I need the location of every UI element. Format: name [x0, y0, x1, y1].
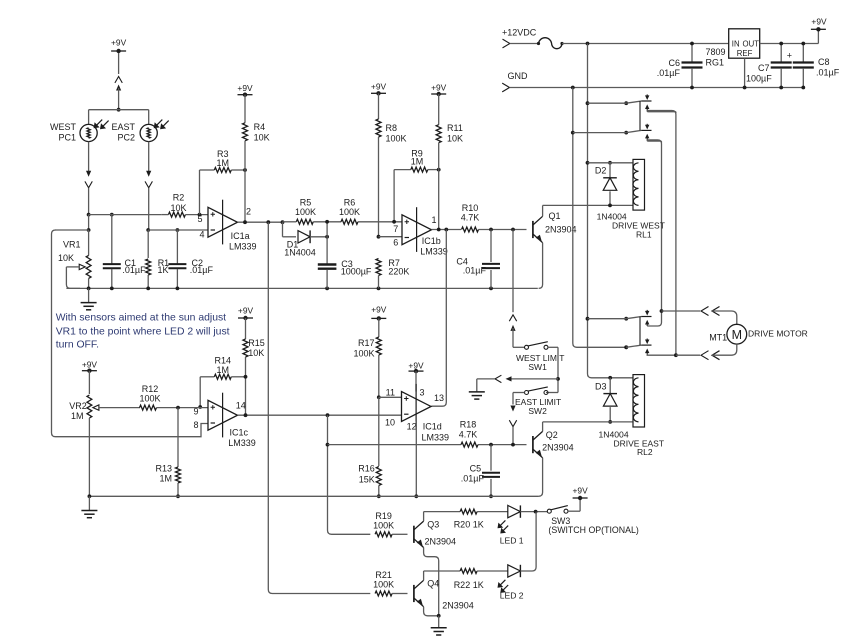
resistor R17 — [371, 305, 387, 398]
svg-text:100K: 100K — [373, 521, 394, 531]
svg-text:6: 6 — [393, 237, 398, 247]
wire (gnd vertical) — [573, 88, 626, 348]
label DRIVE EAST RL2 — [614, 438, 665, 457]
svg-text:R22 1K: R22 1K — [454, 580, 484, 590]
resistor R2 — [161, 212, 208, 217]
svg-text:8: 8 — [193, 420, 198, 430]
resistor R13 — [176, 408, 181, 499]
connector J1 (9V feed) — [115, 77, 122, 110]
svg-text:With sensors aimed at the sun: With sensors aimed at the sun adjust — [56, 313, 226, 324]
svg-text:100K: 100K — [139, 394, 160, 404]
node gnd bus — [571, 86, 575, 90]
svg-text:1M: 1M — [71, 411, 84, 421]
svg-text:R19: R19 — [375, 511, 392, 521]
node C (PC2/R1/C2/pin4) — [146, 228, 208, 232]
resistor R11 — [431, 82, 447, 169]
label R11 10K — [447, 123, 463, 144]
connector (to SW1) — [509, 315, 524, 348]
label pin 14 — [236, 401, 246, 411]
svg-text:D3: D3 — [595, 381, 607, 391]
op-amp IC1d — [402, 384, 432, 429]
label R4 10K — [254, 122, 270, 143]
resistor R9 — [392, 167, 440, 224]
svg-text:R16: R16 — [358, 464, 375, 474]
svg-text:VR1: VR1 — [63, 240, 81, 250]
label pin 5 — [197, 214, 202, 224]
ground (VR1) — [81, 288, 97, 309]
label 1N4004 (D3) — [599, 430, 629, 440]
wire (Q1 collector) — [543, 205, 633, 216]
svg-text:IC1a: IC1a — [231, 231, 250, 241]
svg-text:4: 4 — [199, 230, 204, 240]
svg-text:.01µF: .01µF — [461, 473, 485, 483]
label IC1d LM339 — [422, 422, 450, 443]
label pin 13 — [434, 393, 444, 403]
label Q3 — [427, 520, 439, 530]
wire (Q4 emitter) — [424, 607, 439, 616]
label pin 8 — [193, 420, 198, 430]
svg-text:R18: R18 — [460, 420, 477, 430]
svg-text:.01µF: .01µF — [190, 265, 214, 275]
label D2 — [595, 166, 607, 176]
svg-text:4.7K: 4.7K — [461, 213, 480, 223]
svg-text:VR1 to the point where LED 2 w: VR1 to the point where LED 2 will just — [56, 327, 230, 338]
wire (REF to gnd) — [743, 58, 747, 89]
svg-text:turn OFF.: turn OFF. — [56, 340, 99, 351]
svg-text:C6: C6 — [668, 58, 680, 68]
wire (IC1c out branch) — [326, 415, 371, 534]
svg-text:PC1: PC1 — [58, 133, 76, 143]
capacitor C2 — [168, 230, 186, 288]
label Q4 — [427, 579, 439, 589]
wire — [88, 142, 90, 171]
label R19 100K — [373, 511, 394, 531]
svg-text:R6: R6 — [344, 198, 356, 208]
svg-text:15K: 15K — [359, 474, 375, 484]
svg-text:11: 11 — [386, 387, 395, 397]
svg-text:+9V: +9V — [111, 38, 127, 48]
node motor top — [660, 309, 700, 313]
connector (to Q2 base) — [509, 406, 516, 445]
+9V VR2 — [82, 360, 98, 395]
svg-text:LED 1: LED 1 — [500, 536, 524, 546]
svg-text:1M: 1M — [411, 157, 424, 167]
svg-text:Q1: Q1 — [549, 211, 561, 221]
resistor R12 — [140, 405, 209, 410]
label R2 10K — [170, 193, 186, 213]
label VR2 1M — [69, 401, 87, 421]
trimpot VR2 — [87, 395, 140, 496]
label VR1 10K — [58, 240, 81, 263]
node C4 top — [489, 228, 515, 232]
photocell PC2 — [140, 120, 169, 142]
svg-text:M: M — [732, 328, 742, 342]
capacitor C3 — [318, 220, 337, 288]
svg-text:+9V: +9V — [431, 82, 447, 92]
note text — [56, 313, 230, 351]
svg-text:PC2: PC2 — [117, 133, 135, 143]
svg-text:C7: C7 — [758, 63, 770, 73]
svg-text:GND: GND — [508, 71, 529, 81]
wire (LED2 to LED1 node) — [520, 512, 536, 571]
svg-text:10K: 10K — [248, 348, 264, 358]
svg-text:.01µF: .01µF — [816, 68, 840, 78]
capacitor C1 — [103, 215, 121, 289]
node IC1c out — [238, 413, 402, 417]
svg-text:(SWITCH OP(TIONAL): (SWITCH OP(TIONAL) — [548, 525, 638, 535]
label pin 6 — [393, 237, 398, 247]
wire — [438, 170, 440, 230]
resistor R10 — [462, 227, 527, 232]
relay coil RL1 — [586, 159, 645, 210]
relay RL2 contact b (gnd) — [624, 339, 676, 356]
svg-text:RG1: RG1 — [705, 57, 724, 67]
wire (IC1a out bus) — [268, 222, 370, 593]
svg-text:10K: 10K — [58, 253, 74, 263]
resistor R22 — [460, 569, 508, 574]
node +12/relays — [586, 42, 590, 46]
transistor Q2 2N3904 — [533, 431, 543, 457]
resistor R1 — [146, 230, 151, 288]
resistor R20 — [460, 509, 508, 514]
svg-text:1M: 1M — [159, 474, 172, 484]
svg-text:RL1: RL1 — [636, 230, 652, 240]
svg-text:220K: 220K — [388, 267, 409, 277]
label 2N3904 (Q2) — [542, 442, 574, 452]
label 7809 RG1 — [705, 47, 725, 67]
svg-text:R4: R4 — [254, 122, 266, 132]
regulator RG1 7809 — [729, 29, 760, 58]
transistor Q3 2N3904 — [414, 521, 424, 547]
capacitor C4 — [482, 230, 500, 289]
relay RL2 contact a (+12) — [586, 310, 662, 326]
svg-text:9: 9 — [193, 407, 198, 417]
ground rail (upper) — [66, 287, 537, 291]
resistor R21 — [375, 591, 407, 596]
svg-text:+9V: +9V — [811, 17, 827, 27]
svg-text:LM339: LM339 — [228, 438, 256, 448]
svg-text:R13: R13 — [155, 464, 172, 474]
label C4 .01uF — [456, 256, 486, 275]
op-amp IC1c — [208, 393, 238, 438]
label R9 1M — [411, 149, 424, 167]
label R17 100K — [353, 338, 374, 359]
svg-text:D2: D2 — [595, 166, 607, 176]
node LED1/SW3 — [534, 510, 538, 514]
node A (PC1/R2/C1) — [87, 213, 162, 217]
svg-text:10K: 10K — [254, 133, 270, 143]
svg-text:OUT: OUT — [743, 40, 760, 49]
node IC1a out — [238, 220, 283, 224]
svg-text:SW1: SW1 — [528, 362, 547, 372]
svg-text:13: 13 — [434, 393, 444, 403]
label R6 100K — [339, 198, 360, 218]
label 1N4004 (D2) — [597, 212, 627, 222]
label LED 1 — [500, 536, 524, 546]
fuse F1 — [537, 38, 564, 49]
svg-text:+9V: +9V — [82, 360, 98, 370]
capacitor C8 — [793, 42, 814, 90]
label EAST PC2 — [111, 122, 135, 143]
LED LED2 — [498, 565, 521, 593]
svg-text:R10: R10 — [462, 203, 479, 213]
resistor R3 — [200, 168, 247, 215]
relay RL1 contact a (+12) — [586, 94, 676, 355]
svg-text:7809: 7809 — [705, 47, 725, 57]
diode D3 1N4004 — [603, 376, 617, 424]
node R12/R13/pin9 — [176, 406, 180, 410]
label 2N3904 (Q1) — [545, 224, 577, 234]
resistor R5 — [283, 219, 342, 224]
wire (OUT) — [760, 43, 819, 45]
svg-text:VR2: VR2 — [69, 401, 87, 411]
label R21 100K — [373, 570, 394, 590]
svg-text:12: 12 — [407, 422, 417, 432]
svg-text:1K: 1K — [158, 265, 169, 275]
label pin 1 — [431, 215, 436, 225]
svg-text:4.7K: 4.7K — [459, 429, 478, 439]
svg-text:100K: 100K — [386, 134, 407, 144]
label R16 15K — [358, 464, 375, 485]
svg-text:2N3904: 2N3904 — [545, 224, 577, 234]
resistor R6 — [341, 219, 402, 224]
connector (PC2 leg) — [145, 171, 152, 230]
diode D1 1N4004 — [298, 230, 329, 243]
switch SW3 — [547, 506, 568, 514]
svg-text:2N3904: 2N3904 — [425, 537, 457, 547]
connector (to ground) — [477, 375, 512, 382]
svg-text:.01µF: .01µF — [122, 265, 146, 275]
svg-text:+9V: +9V — [573, 486, 589, 496]
motor MT1 — [727, 324, 747, 344]
ground (Q3/Q4) — [431, 616, 447, 635]
wire (+12 rail) — [562, 43, 729, 45]
label WEST LIMIT SW1 — [516, 353, 565, 372]
wire — [512, 230, 514, 313]
ground (limit switches) — [469, 379, 485, 399]
svg-text:+9V: +9V — [238, 306, 254, 316]
node D1 left — [281, 220, 296, 237]
transistor Q4 2N3904 — [414, 580, 424, 606]
wire — [513, 393, 525, 405]
node SW1/SW2 common — [509, 377, 560, 381]
svg-text:10: 10 — [385, 418, 395, 428]
label R12 100K — [139, 384, 160, 404]
label R3 1M — [217, 149, 230, 168]
svg-text:+9V: +9V — [371, 82, 387, 92]
svg-text:R17: R17 — [358, 338, 375, 348]
svg-text:100K: 100K — [339, 207, 360, 217]
svg-text:IC1c: IC1c — [230, 427, 249, 437]
label LED 2 — [500, 591, 524, 601]
svg-text:RL2: RL2 — [637, 447, 653, 457]
label R20 1K — [454, 520, 484, 530]
label 2N3904 (Q4) — [442, 601, 474, 611]
+9V output terminal — [811, 17, 827, 44]
switch SW2 EAST LIMIT — [525, 387, 549, 395]
svg-text:Q2: Q2 — [546, 430, 558, 440]
resistor R19 — [375, 532, 407, 537]
node pin11 — [377, 395, 402, 399]
svg-text:+9V: +9V — [408, 360, 424, 370]
wire — [520, 511, 547, 513]
photocell PC1 — [80, 120, 109, 142]
wire (SW3 to +9V) — [568, 498, 580, 511]
svg-text:MT1: MT1 — [709, 332, 727, 342]
label C8 .01uF — [816, 57, 840, 78]
label IC1c LM339 — [228, 427, 256, 448]
switch SW1 WEST LIMIT — [525, 342, 549, 350]
svg-text:5: 5 — [197, 214, 202, 224]
svg-text:LED 2: LED 2 — [500, 591, 524, 601]
svg-text:Q4: Q4 — [427, 579, 439, 589]
wire — [88, 215, 90, 230]
node C5 top — [489, 443, 515, 447]
svg-text:R2: R2 — [173, 193, 185, 203]
svg-text:2N3904: 2N3904 — [442, 601, 474, 611]
label D1 1N4004 — [284, 240, 316, 258]
label pin 10 — [385, 418, 395, 428]
label R18 4.7K — [459, 420, 478, 440]
svg-text:100K: 100K — [295, 207, 316, 217]
svg-text:SW2: SW2 — [528, 406, 547, 416]
svg-text:C8: C8 — [818, 57, 830, 67]
svg-text:IN: IN — [732, 40, 740, 49]
svg-text:R5: R5 — [300, 198, 312, 208]
svg-text:LM339: LM339 — [422, 432, 450, 442]
svg-text:R11: R11 — [447, 123, 463, 133]
wire — [88, 230, 90, 256]
svg-text:10K: 10K — [170, 203, 186, 213]
connector GND input — [502, 71, 803, 92]
label R5 100K — [295, 198, 316, 218]
svg-text:100K: 100K — [373, 580, 394, 590]
label Q2 — [546, 430, 558, 440]
node B (PC1 to IC1c loop) — [55, 228, 91, 232]
wire (Q4 collector) — [424, 571, 461, 580]
label C2 .01uF — [190, 258, 214, 275]
label pin 12 — [407, 422, 417, 432]
label MT1 — [709, 332, 727, 342]
connector (motor +) — [701, 307, 737, 325]
wire (Q2 emitter) — [539, 458, 543, 497]
wire — [88, 278, 90, 288]
label DRIVE MOTOR — [748, 329, 808, 339]
wire (loop down-left) — [52, 230, 209, 437]
label C1 .01uF — [122, 258, 146, 275]
relay RL1 contact b (gnd) — [571, 124, 662, 311]
svg-text:IC1d: IC1d — [423, 422, 442, 432]
label 2N3904 (Q3) — [425, 537, 457, 547]
label R14 1M — [215, 356, 232, 376]
label R1 1K — [158, 258, 170, 275]
label R10 4.7K — [461, 203, 480, 223]
label pin 2 — [246, 206, 251, 216]
wire (Q2 collector) — [543, 422, 633, 432]
resistor R8 — [371, 82, 387, 237]
resistor R7 — [376, 259, 381, 289]
label C6 .01uF — [657, 58, 681, 78]
svg-text:DRIVE MOTOR: DRIVE MOTOR — [748, 329, 808, 339]
label WEST PC1 — [50, 122, 77, 143]
op-amp IC1b — [402, 207, 432, 252]
label C7 100uF — [746, 63, 772, 83]
label pin 4 — [199, 230, 204, 240]
svg-text:100K: 100K — [353, 349, 374, 359]
resistor R14 — [198, 374, 247, 409]
svg-text:+12VDC: +12VDC — [502, 28, 537, 38]
label R7 220K — [388, 258, 409, 277]
label IC1a LM339 — [229, 231, 257, 251]
label DRIVE WEST RL1 — [612, 221, 665, 240]
LED LED1 — [498, 505, 521, 533]
svg-text:7: 7 — [393, 224, 398, 234]
wire (+12 vertical) — [588, 44, 633, 378]
trimpot VR1 — [66, 255, 91, 288]
connector (PC1 leg) — [85, 171, 92, 215]
label R22 1K — [454, 580, 484, 590]
svg-text:R12: R12 — [142, 384, 159, 394]
svg-text:3: 3 — [420, 387, 425, 397]
svg-text:10K: 10K — [447, 134, 463, 144]
resistor R16 — [376, 397, 381, 498]
ground (VR2) — [81, 496, 97, 517]
resistor R4 — [237, 83, 253, 170]
label C5 .01uF — [461, 464, 485, 484]
svg-text:1M: 1M — [217, 365, 230, 375]
capacitor C7 100uF — [771, 42, 792, 90]
relay coil RL2 — [633, 375, 645, 427]
label C3 1000uF — [341, 259, 372, 277]
label SW3 optional — [548, 516, 638, 535]
svg-text:LM339: LM339 — [420, 247, 448, 257]
wire — [118, 53, 120, 74]
svg-text:LM339: LM339 — [229, 241, 257, 251]
diode D2 1N4004 — [603, 161, 617, 207]
node Q3/Q4 emitters — [437, 614, 441, 618]
wire (Q3 emitter) — [424, 548, 439, 616]
svg-text:R21: R21 — [375, 570, 392, 580]
svg-text:C5: C5 — [470, 464, 482, 474]
label EAST LIMIT SW2 — [515, 397, 561, 416]
link RL1 contacts — [639, 101, 641, 130]
svg-text:1N4004: 1N4004 — [284, 247, 316, 257]
svg-text:Q3: Q3 — [427, 520, 439, 530]
+9V supply terminal (photocells) — [111, 38, 127, 54]
node pin6 — [377, 235, 402, 239]
wire — [546, 392, 558, 394]
svg-text:REF: REF — [737, 49, 753, 58]
svg-text:R14: R14 — [215, 356, 232, 366]
svg-text:+: + — [787, 51, 792, 61]
svg-text:1: 1 — [431, 215, 436, 225]
label pin 3 — [420, 387, 425, 397]
wire — [148, 142, 150, 171]
capacitor C5 — [482, 445, 500, 499]
resistor R15 — [238, 306, 254, 416]
wire (pin12 to gnd) — [414, 421, 418, 498]
connector (motor -) — [701, 344, 737, 360]
resistor R18 — [328, 442, 527, 447]
connector +12VDC input — [502, 28, 539, 48]
label pin 11 — [386, 387, 395, 397]
wire (R3/R4 to out) — [244, 170, 246, 222]
svg-text:+9V: +9V — [371, 305, 387, 315]
node motor bottom — [674, 353, 700, 357]
label R8 100K — [386, 123, 407, 144]
wire (Q3 collector) — [424, 512, 461, 521]
capacitor C6 — [682, 42, 703, 90]
